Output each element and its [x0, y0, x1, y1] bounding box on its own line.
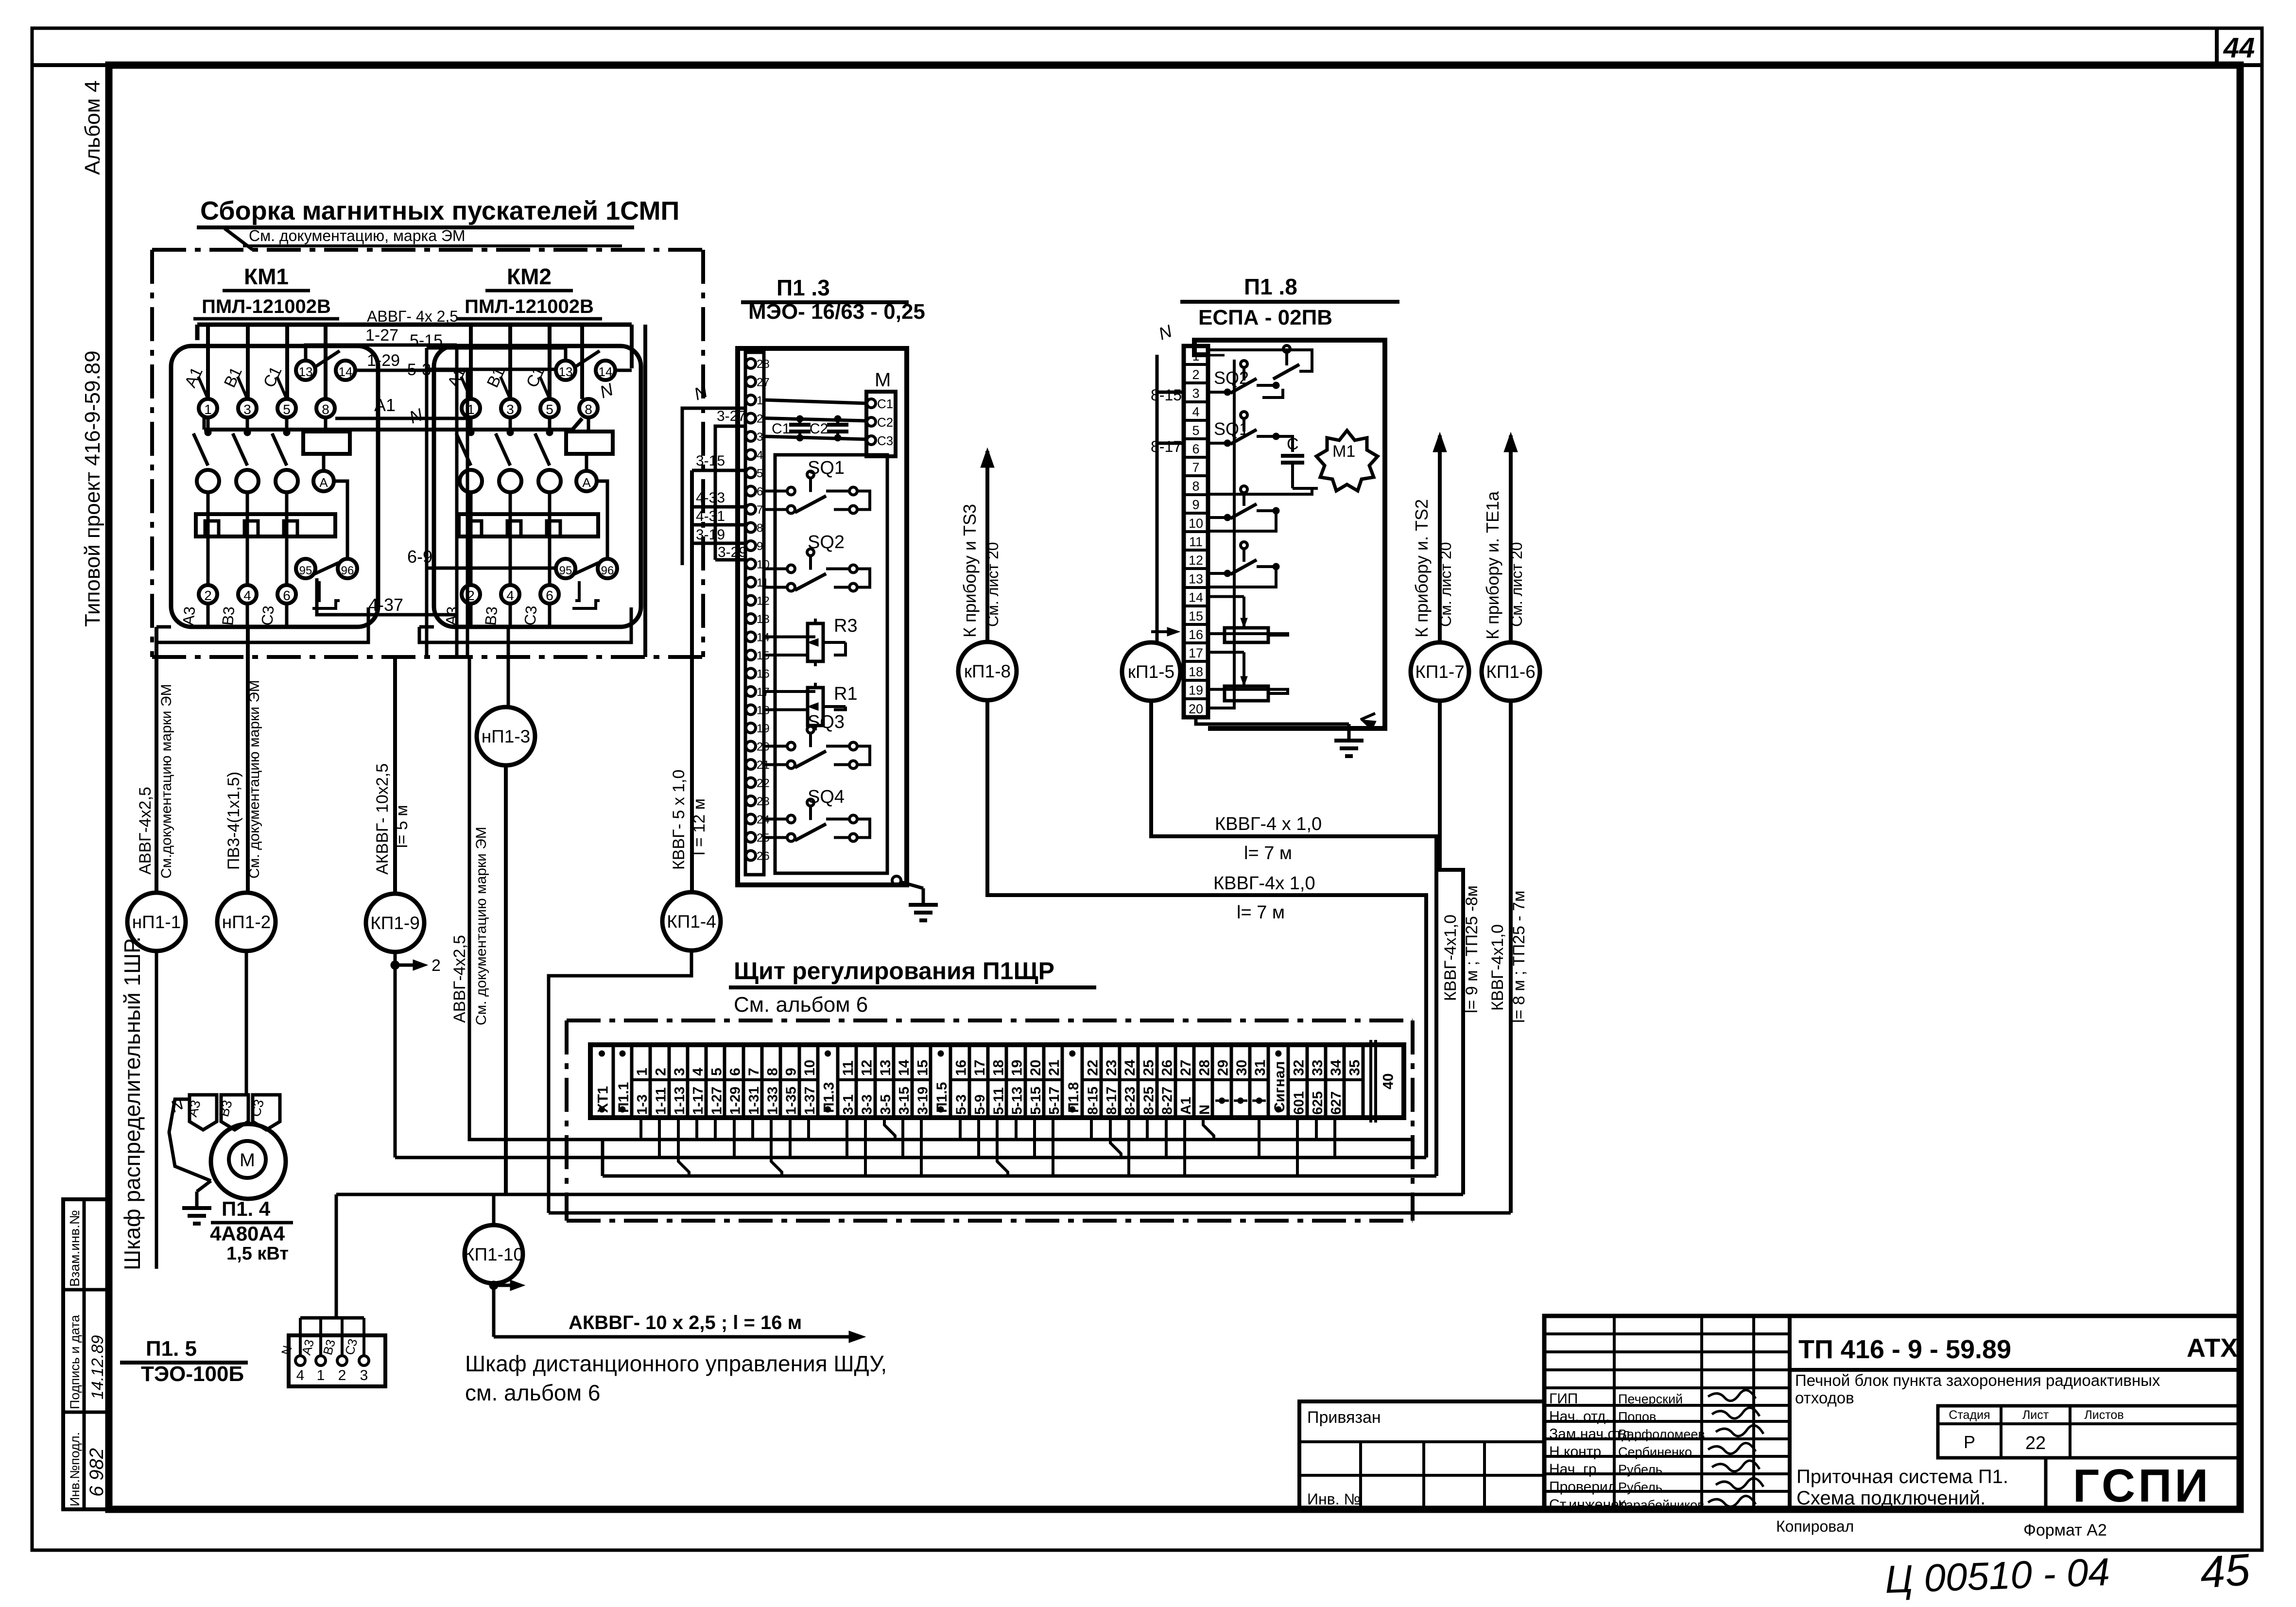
КМ1 wire coil A to 96 [334, 481, 347, 558]
assembly 1СМП boundary (dash-dot) [152, 250, 703, 657]
svg-text:45: 45 [2198, 1545, 2252, 1598]
capacitor C2 [810, 415, 848, 441]
П1.3 terminal 25 [746, 831, 770, 845]
strip terminal 30 / [1231, 1045, 1250, 1118]
svg-text:96: 96 [601, 564, 614, 577]
svg-text:Печной блок пункта захоронения: Печной блок пункта захоронения радиоакти… [1795, 1371, 2160, 1389]
motor П1.4 [211, 1124, 286, 1199]
resistor R3 [764, 616, 858, 666]
П1.3 terminal 20 [746, 741, 770, 754]
wire П1.3 terminal 1 to M C1 [764, 400, 867, 403]
svg-text:8-15: 8-15 [1085, 1087, 1101, 1115]
П1.3 inner box [775, 455, 887, 873]
П1.5 terminal 4 (N) [278, 1318, 305, 1383]
svg-text:1-13: 1-13 [672, 1087, 688, 1115]
wire КП1-6 up arrow to ТЕ1а [1483, 432, 1525, 641]
svg-text:23: 23 [1104, 1060, 1120, 1076]
svg-text:1-27: 1-27 [365, 326, 398, 345]
node N (П1.8) [1156, 321, 1175, 344]
svg-text:Формат А2: Формат А2 [2023, 1521, 2107, 1539]
svg-text:Взам.инв.№: Взам.инв.№ [67, 1210, 82, 1287]
svg-text:4: 4 [296, 1367, 305, 1383]
svg-text:2: 2 [1192, 367, 1199, 382]
svg-text:См. документацию марки ЭМ: См. документацию марки ЭМ [246, 680, 262, 879]
svg-text:М: М [240, 1150, 255, 1171]
svg-text:4: 4 [1192, 405, 1199, 419]
svg-text:Подпись и дата: Подпись и дата [68, 1314, 82, 1409]
П1.3 terminal 28 [746, 358, 770, 371]
svg-text:Нач. отд.: Нач. отд. [1549, 1408, 1610, 1424]
svg-text:АВВГ-4х2,5: АВВГ-4х2,5 [136, 787, 155, 875]
svg-text:Сигнал: Сигнал [1272, 1061, 1288, 1113]
top margin band [32, 28, 2262, 65]
КМ2 terminal label А3 [442, 605, 461, 626]
КМ2 terminal 8 [579, 399, 598, 417]
margin text Альбом 4 [81, 80, 104, 175]
П1.3 terminal 24 [746, 813, 770, 827]
wire КП1-10 up [492, 1194, 496, 1225]
svg-text:23: 23 [757, 795, 770, 808]
svg-text:28: 28 [757, 358, 770, 371]
svg-text:16: 16 [953, 1060, 969, 1076]
svg-text:29: 29 [1215, 1060, 1231, 1076]
svg-text:20: 20 [1189, 702, 1203, 716]
КМ2 wire coil A to 96 [597, 481, 607, 558]
cable АВВГ-4х2,5 to нП1-3 [506, 627, 508, 707]
КМ2 terminal label С3 [521, 605, 540, 626]
contact (П1.8) [1208, 542, 1279, 577]
svg-text:С3: С3 [877, 433, 893, 448]
svg-text:95: 95 [299, 564, 312, 577]
КМ2 pole 6 heater [538, 470, 561, 585]
svg-text:10: 10 [802, 1060, 818, 1076]
wire 4-31 [692, 508, 745, 525]
svg-text:1: 1 [317, 1367, 325, 1383]
svg-text:1-29: 1-29 [367, 351, 400, 370]
sheet number 44 [2223, 32, 2255, 64]
svg-text:19: 19 [757, 722, 770, 735]
svg-text:6: 6 [757, 485, 763, 499]
wire кП1-8 up arrow to TS3 [960, 448, 1001, 641]
svg-text:КП1-6: КП1-6 [1486, 662, 1536, 682]
svg-text:Привязан: Привязан [1307, 1408, 1381, 1427]
svg-text:Н.контр: Н.контр [1549, 1444, 1601, 1460]
svg-text:П1. 5: П1. 5 [146, 1337, 197, 1361]
wire N to кП1-5 [1151, 355, 1180, 641]
unit П1.3 enclosure [738, 348, 907, 885]
КМ1 bottom wire loop [156, 581, 368, 642]
contactor КМ2 body [434, 346, 641, 627]
svg-text:15: 15 [915, 1060, 931, 1076]
strip terminal 8 / 1-33 [762, 1045, 780, 1118]
svg-text:21: 21 [1046, 1060, 1062, 1076]
П1.3 terminal 7 [746, 503, 763, 517]
contact (П1.8) [1208, 486, 1279, 521]
П1.8 internal rail [1208, 350, 1312, 371]
svg-text:26: 26 [1159, 1060, 1175, 1076]
svg-text:С1: С1 [877, 397, 893, 411]
svg-text:кП1-5: кП1-5 [1128, 662, 1174, 682]
svg-text:1,5 кВт: 1,5 кВт [226, 1244, 289, 1264]
title block system name [1796, 1458, 2008, 1509]
strip terminal 11 / 3-1 [838, 1045, 856, 1118]
strip terminal 24 / 8-23 [1120, 1045, 1138, 1118]
КМ1 pole 6 contact [272, 417, 290, 466]
svg-text:См. лист 20: См. лист 20 [1437, 542, 1454, 627]
svg-text:нП1-3: нП1-3 [482, 726, 531, 746]
svg-text:П1 .3: П1 .3 [777, 275, 830, 300]
П1.3 terminal 23 [746, 795, 770, 808]
П1.5 terminal 3 (С3) [342, 1318, 369, 1383]
strip terminal 27 / А1 [1175, 1045, 1194, 1118]
П1.3 terminal 17 [746, 686, 770, 699]
strip terminal 29 / [1212, 1045, 1231, 1118]
strip terminal 17 / 5-9 [969, 1045, 988, 1118]
КМ1 terminal label А3 [179, 605, 198, 626]
strip terminal 23 / 8-17 [1101, 1045, 1120, 1118]
wire 1-29 [355, 351, 467, 370]
wire нП1-2 to motor П1.4 [245, 951, 248, 1096]
svg-text:N: N [1197, 1105, 1212, 1115]
svg-text:7: 7 [1192, 460, 1199, 475]
svg-text:14: 14 [599, 364, 613, 379]
limit switch SQ1 [764, 458, 870, 514]
bus below strip level 5 [549, 1211, 1511, 1215]
strip terminal 14 / 3-15 [894, 1045, 912, 1118]
svg-text:22: 22 [757, 777, 770, 790]
node N (П1.4) [168, 1094, 211, 1181]
strip terminal 3 / 1-13 [669, 1045, 688, 1118]
КМ2 terminal label В3 [482, 605, 501, 626]
strip header column П1.5 [934, 1045, 950, 1118]
svg-text:ТП 416 - 9 - 59.89: ТП 416 - 9 - 59.89 [1798, 1335, 2011, 1364]
КМ1 terminal 4 [238, 585, 257, 627]
svg-text:отходов: отходов [1795, 1389, 1854, 1407]
svg-text:627: 627 [1329, 1091, 1344, 1115]
node кП1-8 [958, 642, 1017, 700]
П1.4 label [210, 1197, 293, 1264]
svg-text:ГСПИ: ГСПИ [2073, 1460, 2211, 1512]
П1.4 terminal box С3 [248, 1095, 280, 1130]
svg-text:3: 3 [1192, 386, 1199, 400]
svg-text:28: 28 [1196, 1060, 1212, 1076]
svg-text:КВВГ-4 х 1,0: КВВГ-4 х 1,0 [1215, 814, 1322, 834]
svg-text:l= 8 м ; ТП25 - 7м: l= 8 м ; ТП25 - 7м [1510, 891, 1528, 1023]
node КП1-4 [662, 892, 721, 950]
svg-text:34: 34 [1328, 1059, 1344, 1076]
КМ1 thermal contact 95-96 [296, 559, 357, 608]
svg-text:См. лист 20: См. лист 20 [1508, 542, 1525, 627]
strip terminal 12 / 3-3 [856, 1045, 875, 1118]
strip terminal 21 / 5-17 [1044, 1045, 1062, 1118]
svg-text:3-29: 3-29 [718, 544, 747, 560]
svg-text:1: 1 [204, 402, 212, 417]
node КП1-6 [1482, 642, 1540, 701]
strip terminal 18 / 5-11 [988, 1045, 1006, 1118]
svg-text:Ст.инженер: Ст.инженер [1549, 1497, 1627, 1513]
svg-text:5: 5 [1192, 423, 1199, 438]
svg-text:18: 18 [1189, 664, 1203, 679]
КМ2 terminal label А1 [444, 364, 471, 399]
svg-text:3-19: 3-19 [696, 527, 725, 543]
svg-text:Шкаф распределительный 1ШР.: Шкаф распределительный 1ШР. [120, 936, 145, 1270]
svg-text:С1: С1 [772, 421, 790, 437]
resistor R1 [764, 683, 858, 730]
svg-text:13: 13 [878, 1060, 894, 1076]
КМ1 terminal 3 [238, 399, 257, 417]
unit П1.5 box [289, 1335, 385, 1386]
svg-text:КП1-9: КП1-9 [370, 913, 420, 933]
potentiometer (П1.8) [1208, 652, 1288, 701]
svg-text:Щит регулирования П1ЩР: Щит регулирования П1ЩР [734, 957, 1054, 985]
strip terminal 5 / 1-27 [706, 1045, 725, 1118]
title block stage table [1938, 1406, 2240, 1458]
КМ2 terminal 6 [540, 585, 559, 627]
svg-text:24: 24 [1122, 1059, 1138, 1076]
П1.4 ground [182, 1181, 211, 1224]
unit П1.5 label [120, 1337, 248, 1386]
svg-text:К прибору и ТS3: К прибору и ТS3 [960, 504, 980, 638]
handwritten inventory number [1884, 1545, 2252, 1601]
strip terminal 9 / 1-35 [780, 1045, 799, 1118]
П1.3 terminal 26 [746, 850, 770, 863]
П1.3 terminal 18 [746, 704, 770, 717]
svg-text:9: 9 [757, 540, 763, 553]
svg-text:1-31: 1-31 [746, 1087, 762, 1115]
svg-text:1-37: 1-37 [802, 1087, 818, 1115]
strip header column ХТ1 [595, 1045, 614, 1118]
svg-text:2: 2 [653, 1068, 669, 1076]
strip terminal 25 / 8-25 [1138, 1045, 1157, 1118]
svg-text:5: 5 [546, 402, 553, 417]
svg-text:27: 27 [1178, 1060, 1194, 1076]
wire 8-15 (П1.8) [1151, 386, 1184, 404]
КМ1 terminal 2 [199, 585, 217, 627]
node нП1-1 [127, 893, 186, 951]
svg-text:Варфоломеев: Варфоломеев [1618, 1427, 1705, 1442]
svg-text:АКВВГ- 10 х 2,5 ; l = 16 м: АКВВГ- 10 х 2,5 ; l = 16 м [569, 1312, 802, 1333]
КМ1 aux contact 13-14 [296, 351, 355, 380]
bus below strip level 3 [603, 1140, 1436, 1176]
terminal strip ХТ1 [590, 1045, 1404, 1118]
strip terminal 2 / 1-11 [650, 1045, 669, 1118]
svg-text:М: М [875, 369, 891, 391]
strip terminal 10 / 1-37 [799, 1045, 818, 1118]
wire M1 to terminal 8 [1208, 488, 1312, 494]
svg-text:8-25: 8-25 [1141, 1087, 1157, 1115]
svg-text:ГИП: ГИП [1549, 1391, 1578, 1407]
wire 3-15 [692, 453, 745, 470]
svg-text:нП1-2: нП1-2 [222, 912, 271, 932]
bus АВВГ-4х2,5 [197, 308, 632, 399]
strip terminal 15 / 3-19 [912, 1045, 931, 1118]
SQ2 second contact [1208, 346, 1312, 397]
svg-text:1-11: 1-11 [653, 1088, 669, 1115]
П1.3 terminal 9 [746, 540, 763, 553]
svg-text:Типовой проект 416-9-59.89: Типовой проект 416-9-59.89 [81, 350, 104, 627]
svg-text:14.12.89: 14.12.89 [88, 1335, 107, 1400]
svg-text:13: 13 [559, 364, 573, 379]
strip terminal 16 / 5-3 [950, 1045, 969, 1118]
strip terminal 19 / 5-13 [1006, 1045, 1025, 1118]
assembly 1СМП title [197, 196, 679, 250]
cable КВВГ-4х1,0 ТП25-7м (КП1-6) [1488, 702, 1528, 1213]
svg-text:См. документацию марки ЭМ: См. документацию марки ЭМ [473, 827, 489, 1025]
svg-text:95: 95 [559, 564, 572, 577]
КМ2 pole 2 heater [460, 470, 482, 585]
svg-text:6-9: 6-9 [407, 547, 432, 567]
unit П1.8 title [1180, 274, 1399, 329]
П1.3 terminal 27 [746, 376, 770, 389]
svg-text:кП1-8: кП1-8 [964, 661, 1011, 681]
П1.3 terminal 12 [746, 595, 770, 608]
svg-text:7: 7 [757, 503, 763, 517]
svg-text:Стадия: Стадия [1949, 1408, 1990, 1422]
svg-text:3-15: 3-15 [696, 453, 725, 469]
svg-text:Р: Р [1964, 1432, 1975, 1452]
КМ1 thermal relay bar [196, 514, 335, 536]
КМ1 pole 2 heater [197, 470, 219, 585]
svg-text:Печерский: Печерский [1618, 1392, 1683, 1406]
КМ2 pole 4 heater [499, 470, 521, 585]
svg-text:20: 20 [1028, 1060, 1044, 1076]
title block signatures [1708, 1390, 1763, 1507]
limit switch SQ2 (П1.8) [1208, 361, 1279, 396]
svg-text:А: А [582, 475, 591, 490]
П1.3 motor M terminal box [866, 369, 896, 456]
bus below strip level 4 [336, 1193, 1463, 1196]
КМ1 terminal 6 [277, 585, 296, 627]
contactor KM1 [156, 264, 378, 642]
svg-text:ПВ3-4(1х1,5): ПВ3-4(1х1,5) [224, 772, 243, 870]
П1.3 terminal 3 [746, 431, 763, 444]
КМ2 terminal 3 [501, 399, 519, 417]
node нП1-2 [217, 893, 276, 951]
svg-text:1-17: 1-17 [691, 1087, 706, 1115]
panel П1ЩР title [729, 957, 1096, 1017]
svg-text:4А80А4: 4А80А4 [210, 1222, 285, 1245]
svg-text:13: 13 [757, 613, 770, 626]
svg-text:Схема подключений.: Схема подключений. [1796, 1487, 1985, 1509]
svg-text:3: 3 [757, 431, 763, 444]
КМ1 terminal 8 [316, 399, 335, 417]
КМ1 terminal 1 [199, 399, 217, 417]
svg-text:40: 40 [1381, 1073, 1397, 1089]
КМ2 terminal label С1 [523, 363, 550, 399]
wire terminal 20 loop [1208, 360, 1234, 708]
КМ2 thermal contact 95-96 [556, 559, 617, 608]
svg-text:3: 3 [672, 1068, 688, 1076]
КМ2 coil [566, 417, 613, 491]
svg-text:35: 35 [1347, 1060, 1363, 1076]
svg-text:К прибору и. ТS2: К прибору и. ТS2 [1412, 499, 1432, 638]
svg-text:19: 19 [1009, 1060, 1025, 1076]
strip terminal 28 / N [1194, 1045, 1212, 1118]
svg-text:1-27: 1-27 [709, 1087, 725, 1115]
strip terminal 32 / 601 [1288, 1045, 1307, 1118]
cable КВВГ-4х1,0 l=7м (кП1-5) [1151, 702, 1436, 1176]
svg-text:22: 22 [1085, 1060, 1101, 1076]
П1.3 terminal 1 [746, 394, 763, 407]
wire КП1-9 down with tap 2 [391, 952, 441, 1158]
svg-text:6 982: 6 982 [86, 1448, 107, 1497]
svg-text:11: 11 [840, 1060, 856, 1076]
КМ2 pole 2 contact [456, 417, 474, 466]
П1.8 bottom wire and ground [1196, 713, 1376, 756]
strip header column П1.3 [821, 1045, 838, 1118]
П1.3 terminal 22 [746, 777, 770, 790]
svg-text:3-1: 3-1 [841, 1094, 856, 1115]
svg-text:Ц 00510 - 04: Ц 00510 - 04 [1884, 1550, 2110, 1601]
svg-text:П1. 4: П1. 4 [222, 1197, 271, 1220]
svg-text:3: 3 [243, 402, 251, 417]
cable ПВ3-4(1х1,5) to нП1-2 [224, 627, 262, 893]
strip terminal 6 / 1-29 [725, 1045, 743, 1118]
svg-text:1: 1 [757, 394, 763, 407]
КМ2 bottom wire loop [419, 581, 631, 642]
svg-text:3-5: 3-5 [878, 1094, 894, 1115]
title block [1544, 1316, 2240, 1509]
П1.4 terminal box А3 [185, 1095, 217, 1130]
П1.3 terminal 11 [746, 576, 769, 589]
svg-text:13: 13 [1189, 571, 1203, 586]
capacitor C1 [772, 415, 811, 441]
svg-text:МЭО- 16/63 - 0,25: МЭО- 16/63 - 0,25 [748, 300, 925, 324]
wire КП1-7 up arrow to TS2 [1412, 432, 1454, 641]
strip terminal 22 / 8-15 [1082, 1045, 1101, 1118]
svg-text:ЕСПА - 02ПВ: ЕСПА - 02ПВ [1198, 306, 1332, 329]
svg-text:КВВГ-4х1,0: КВВГ-4х1,0 [1441, 915, 1460, 1001]
svg-text:КП1-10: КП1-10 [464, 1244, 523, 1264]
svg-text:см. альбом 6: см. альбом 6 [465, 1380, 601, 1405]
svg-text:С3: С3 [258, 605, 277, 626]
svg-text:4: 4 [757, 449, 763, 462]
node КП1-7 [1411, 642, 1469, 701]
svg-text:l= 7 м: l= 7 м [1237, 902, 1285, 923]
svg-text:17: 17 [972, 1060, 988, 1076]
limit switch SQ2 [764, 532, 870, 591]
svg-text:Шкаф дистанционного управления: Шкаф дистанционного управления ШДУ, [465, 1351, 887, 1376]
КМ1 terminal label В3 [219, 605, 238, 626]
svg-text:8: 8 [1192, 479, 1199, 493]
footer notes [1776, 1518, 2107, 1539]
svg-text:44: 44 [2223, 32, 2255, 64]
panel П1ЩР boundary (dash-dot) [567, 1020, 1413, 1221]
svg-text:3-19: 3-19 [915, 1087, 931, 1115]
svg-text:1: 1 [1192, 349, 1199, 363]
КМ1 terminal 5 [277, 399, 296, 417]
svg-text:8: 8 [585, 402, 592, 417]
svg-text:КП1-4: КП1-4 [667, 912, 716, 932]
svg-text:26: 26 [757, 850, 770, 863]
cable АВВГ-4х2,5 to нП1-1 [136, 627, 174, 893]
svg-text:4: 4 [243, 588, 251, 603]
wire risers between contactors [427, 325, 645, 657]
П1.5 terminal 1 (А3) [299, 1318, 326, 1383]
svg-text:ПМЛ-121002В: ПМЛ-121002В [202, 296, 331, 317]
svg-text:l = 12 м: l = 12 м [690, 798, 708, 855]
potentiometer (П1.8) [1208, 597, 1288, 642]
svg-text:С3: С3 [521, 605, 540, 626]
svg-text:15: 15 [1189, 609, 1203, 623]
svg-text:Лист: Лист [2022, 1408, 2049, 1422]
node кП1-5 [1122, 642, 1180, 701]
svg-text:3: 3 [506, 402, 514, 417]
svg-text:8: 8 [322, 402, 329, 417]
КМ2 thermal relay bar [459, 514, 598, 536]
svg-text:2: 2 [204, 588, 212, 603]
svg-text:96: 96 [341, 564, 354, 577]
